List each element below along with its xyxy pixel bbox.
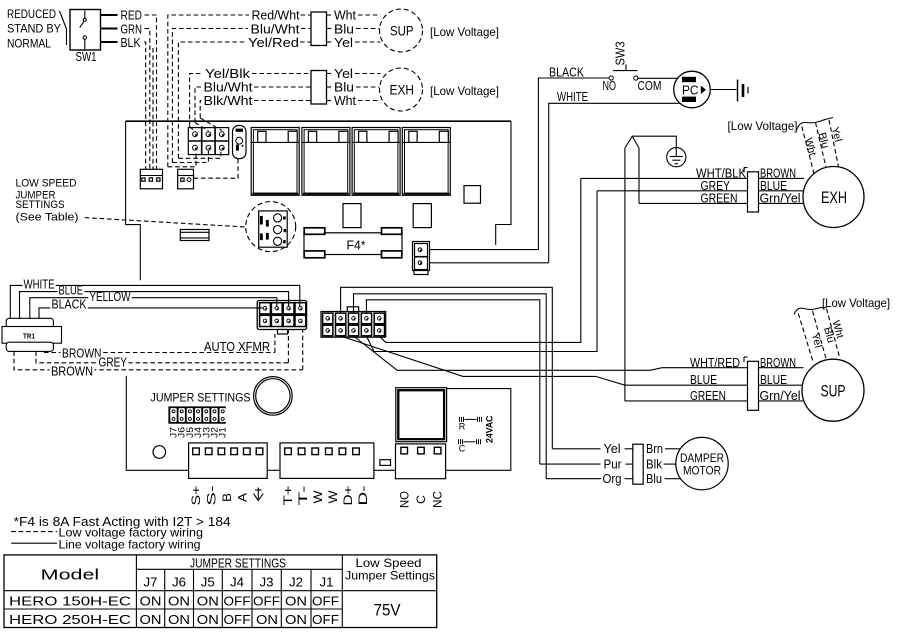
label YELLOW [88,293,132,303]
svg-text:S-: S- [205,485,219,505]
svg-text:C: C [459,444,466,454]
ground (chassis earth circle) [667,148,686,167]
svg-text:B: B [220,493,234,502]
svg-text:J7: J7 [144,575,158,590]
svg-text:Blu: Blu [646,471,662,486]
svg-text:Grn/Yel: Grn/Yel [760,388,801,403]
wire dash to box [252,73,311,75]
connector box EXH leads [311,71,327,105]
connector 2-pin [413,242,430,271]
SECTION: bottom notes and table [4,514,437,628]
filter component (double rect) [180,230,209,241]
svg-text:SUP: SUP [821,382,846,401]
spare hole (double circle) [254,377,293,416]
svg-text:24VAC: 24VAC [485,415,495,443]
svg-text:[Low Voltage]: [Low Voltage] [430,25,499,39]
svg-text:ON: ON [168,594,190,609]
wire P2 pin to damper Org [354,294,547,479]
board left edge upper [126,121,141,280]
svg-text:ON: ON [285,594,307,609]
wire BLUE [20,292,289,319]
wire Blu/Wht dashed bus [172,29,248,163]
svg-text:OFF: OFF [312,594,339,609]
wire dash to EXH circle [355,73,381,75]
svg-text:WHITE: WHITE [24,277,55,292]
svg-text:Line voltage factory wiring: Line voltage factory wiring [59,537,201,551]
svg-text:BLUE: BLUE [690,372,717,387]
svg-text:OFF: OFF [224,612,251,627]
svg-text:J6: J6 [172,575,186,590]
svg-text:NC: NC [431,491,445,508]
wire Blk to motor [664,463,676,465]
svg-text:BROWN: BROWN [51,363,93,378]
svg-text:[Low Voltage]: [Low Voltage] [430,84,499,98]
receptacle PC [674,71,711,108]
svg-text:LOW SPEED: LOW SPEED [16,178,77,190]
wire dashed into C6 top pin2 [195,123,208,131]
node SUP (dashed circle) [380,9,423,52]
board bottom edge segment [374,469,396,471]
wire EXH WHT/BLK [581,177,748,179]
power plug symbol [737,80,739,102]
connector L2 [178,169,194,189]
wire YELLOW [30,298,277,319]
svg-text:S+: S+ [189,486,203,506]
svg-text:D-: D- [356,486,370,506]
svg-text:HERO 250H-EC: HERO 250H-EC [9,612,131,627]
wire COM to PC [638,77,678,79]
wire apex to ground [632,136,676,148]
wire P2 to EXH GREY [366,191,597,352]
svg-text:OFF: OFF [253,594,280,609]
wire BROWN dashed [44,352,275,354]
component square A [343,204,361,228]
wire Blu to motor [665,478,681,480]
table row lines [136,568,342,570]
svg-text:ON: ON [197,612,219,627]
connector AUTO XFMR (4x2) [257,301,306,330]
svg-text:BLUE: BLUE [59,283,84,298]
svg-text:YELLOW: YELLOW [90,289,132,304]
svg-text:BLACK: BLACK [52,297,87,312]
svg-text:ON: ON [285,612,307,627]
wire Yel dashed to SUP [798,314,813,362]
svg-text:(See Table): (See Table) [16,211,79,223]
motor SUP [802,359,864,421]
wire WHITE [549,103,680,262]
switch SW3 [609,76,613,80]
svg-text:BROWN: BROWN [760,355,796,370]
svg-text:C: C [414,495,428,504]
wire dashed up to AUTO XFMR pins [274,334,276,353]
transformer TR1 body [6,318,53,327]
connector P2 (5x2) [321,312,386,338]
jumper block J7-J1 [168,406,225,423]
relay K2 [302,128,350,196]
component square C [464,186,481,204]
svg-text:EXH: EXH [390,82,415,98]
mounting hole [153,446,166,459]
connector C6 (3x2) [188,128,228,155]
brace pointing to SW1 [60,11,67,45]
svg-text:BROWN: BROWN [62,346,102,361]
wire dash to SUP circle [358,14,381,16]
wire Blk/Wht dashed bus [200,101,201,119]
wire EXH GREY [597,190,748,192]
svg-text:A: A [236,493,250,502]
svg-text:Brn: Brn [646,441,663,456]
svg-text:WHITE: WHITE [557,89,588,104]
board right edge [496,121,511,245]
svg-text:MOTOR: MOTOR [683,464,721,478]
svg-text:Yel/Red: Yel/Red [248,35,299,50]
label BLUE [58,286,85,296]
svg-text:SW3: SW3 [613,42,628,66]
SW1 pin GRN [101,28,118,30]
svg-text:SW1: SW1 [76,49,97,64]
svg-text:STAND BY: STAND BY [7,22,61,36]
wire Blu dashed to EXH [816,123,827,168]
board left edge lower [126,376,189,470]
svg-text:BLUE: BLUE [760,372,787,387]
component square B [413,204,431,228]
capacitor (pill component) [233,126,247,159]
svg-text:NORMAL: NORMAL [7,37,51,51]
wire dashed into C6 bottom pin1 [168,151,196,167]
wire Yel dashed to EXH [829,120,839,167]
wire dashed from L2 to pill [194,159,239,178]
svg-text:ON: ON [140,594,162,609]
svg-text:Wht: Wht [334,93,356,108]
SECTION: TR1 [2,277,303,379]
board bottom edge segment [267,469,280,471]
svg-text:Red/Wht: Red/Wht [252,8,300,23]
wire BLK dashed [144,42,146,169]
SECTION: SW3 PC plug [538,42,748,401]
wire Yel/Blk dashed bus [190,74,202,127]
svg-text:GREEN: GREEN [690,388,726,403]
wire damper Org [546,478,601,480]
jumper link rect [380,460,391,466]
svg-text:AUTO XFMR: AUTO XFMR [204,339,270,354]
relay (big square) [396,388,447,442]
wire dashed into C6 top pin3 [200,118,222,131]
svg-text:[Low Voltage]: [Low Voltage] [822,296,890,310]
wire BLUE [759,190,804,192]
svg-text:Blk: Blk [646,456,662,471]
node EXH (dashed circle) [380,68,423,111]
wire relay output loop [446,389,511,471]
wire PC to plug [710,89,736,91]
SW1 pin BLK [101,41,118,43]
relay K4 [402,128,450,196]
svg-text:BLACK: BLACK [549,65,584,80]
connector SUP motor plug [748,361,759,410]
wire dash to box [301,14,312,16]
wire P2 pin to damper Pur [366,300,539,464]
wire P2 pin to damper Yel [341,287,553,449]
wire Yel/Red dashed bus [178,42,245,158]
motor DAMPER [676,437,728,489]
svg-text:SETTINGS: SETTINGS [16,199,65,211]
SECTION: top transition group SUP [168,8,499,167]
svg-text:ON: ON [256,612,278,627]
label WHITE [23,280,56,290]
wire Red/Wht dashed bus [168,15,249,167]
SECTION: top transition group EXH [190,66,499,127]
wire P2 to SUP BLUE [341,336,748,385]
svg-text:Org: Org [603,471,622,486]
brace squiggle EXH [797,118,834,131]
connector EXH motor plug [748,172,759,212]
svg-text:EXH: EXH [821,188,847,207]
fuse F4 end caps [304,228,325,235]
switch SW1 body [70,10,101,51]
svg-text:J1: J1 [218,427,228,438]
svg-text:RED: RED [121,8,143,23]
relay K1 [251,128,299,196]
wire Wht dashed to SUP [827,309,840,358]
connector tab [278,330,288,335]
label BROWN [61,347,103,358]
fuse F4 body [304,233,402,255]
brace squiggle SUP [794,307,827,314]
svg-text:J5: J5 [201,575,215,590]
wire RED dashed [145,15,157,169]
wire P2 to EXH WHT/BLK [379,178,581,342]
svg-text:W: W [311,490,325,504]
svg-text:COM: COM [638,78,662,93]
connector L1 [140,169,162,189]
wire WHITE [10,285,300,318]
wire 2pin to WHITE [430,262,549,264]
svg-text:WHT/RED: WHT/RED [690,355,740,370]
SECTION: right motors [540,118,890,490]
svg-text:F4*: F4* [347,238,366,253]
wire dashed into C6 top pin1 [190,127,195,132]
svg-text:REDUCED: REDUCED [7,7,56,21]
wire dashed to connector [152,48,154,169]
svg-text:Yel: Yel [604,441,621,456]
svg-text:Grn/Yel: Grn/Yel [760,190,801,205]
table column lines [135,555,137,628]
wire Brn to motor [665,448,681,450]
twisted pair shield apex [625,136,639,148]
wire shield left leg to SUP green [624,148,626,401]
SW1 pin RED [101,14,118,16]
SECTION: board outline [126,121,511,470]
svg-text:NO: NO [603,78,617,93]
wire dashed into C6 bottom pin3 [178,151,220,158]
jumper detail dashed circle [246,202,296,252]
SECTION: board components lower [151,178,748,508]
leader dashed to detail circle [85,218,246,227]
wire shield right leg to EXH green [638,148,640,203]
connector damper plug [633,444,643,484]
terminal block TB3 [396,444,446,479]
wire GREY dashed [36,351,288,362]
svg-text:ON: ON [197,594,219,609]
label GREY [97,357,129,368]
wire label to connector [625,448,633,450]
relay K3 [352,128,400,196]
svg-text:OFF: OFF [224,594,251,609]
svg-text:J4: J4 [230,575,244,590]
wire dash from box [327,73,334,75]
terminal block TB1 [189,443,268,479]
svg-text:PC: PC [682,83,699,98]
svg-text:Model: Model [41,567,99,584]
capacitor C [459,439,481,444]
svg-text:HERO 150H-EC: HERO 150H-EC [9,594,131,609]
svg-text:BLK: BLK [121,35,141,50]
svg-text:GREEN: GREEN [701,190,738,205]
wire GRN dashed [145,29,150,170]
svg-text:W: W [326,490,340,504]
wire Grn/Yel [759,400,804,402]
wire BLUE [759,384,803,386]
table outline [4,555,437,628]
svg-text:NO: NO [398,491,412,508]
wire dash from box [327,14,334,16]
svg-text:SUP: SUP [390,23,414,39]
wire damper Pur [540,463,601,465]
wire Wht dashed to EXH [802,127,814,174]
board top edge [126,120,511,122]
wire 2pin to BLACK [430,249,539,251]
wire BLACK [538,78,609,250]
connector box SUP leads [311,12,327,46]
svg-text:[Low Voltage]: [Low Voltage] [728,119,798,133]
svg-text:Jumper Settings: Jumper Settings [345,569,435,583]
label BLACK [50,300,88,310]
shield drain symbol [254,488,264,501]
wire BROWN [759,177,805,179]
svg-text:ON: ON [168,612,190,627]
svg-text:J2: J2 [289,575,303,590]
wire damper Yel [552,448,600,450]
wire BROWN2 dashed [14,351,303,369]
svg-text:Yel: Yel [334,35,353,50]
svg-text:ON: ON [140,612,162,627]
wire BLACK [39,308,264,318]
svg-text:Wht: Wht [334,8,356,23]
svg-text:T+: T+ [281,486,295,506]
svg-text:OFF: OFF [312,612,339,627]
svg-text:R: R [459,422,466,432]
svg-text:JUMPER SETTINGS: JUMPER SETTINGS [151,391,251,405]
terminal block TB2 [280,443,374,479]
svg-text:J1: J1 [320,575,334,590]
wire Grn/Yel [759,202,805,204]
svg-text:JUMPER SETTINGS: JUMPER SETTINGS [190,556,286,571]
wire BROWN [759,367,804,369]
svg-text:T-: T- [296,486,310,506]
label BROWN [50,366,95,377]
svg-text:D+: D+ [341,486,355,506]
SECTION: board components upper [16,118,549,275]
legend dashed sample [11,531,57,533]
svg-text:75V: 75V [374,600,402,619]
svg-text:TR1: TR1 [23,331,35,340]
svg-text:J3: J3 [260,575,274,590]
svg-text:Pur: Pur [604,456,623,471]
motor EXH [803,167,864,228]
legend solid sample [11,542,57,544]
svg-text:GREY: GREY [99,355,128,370]
SW1 internal contacts [84,11,86,19]
resistor R [460,417,482,422]
wire EXH GREEN [639,202,748,204]
wire dashed into C6 bottom pin2 [172,151,208,163]
wire P2 to SUP WHT/RED [354,336,748,370]
wire SUP GREEN [625,400,748,402]
wire Blu dashed to SUP [813,311,827,359]
svg-text:Blk/Wht: Blk/Wht [204,93,253,108]
SECTION: SW1 switch [7,7,157,169]
wire Blu/Wht dashed bus [195,87,202,123]
